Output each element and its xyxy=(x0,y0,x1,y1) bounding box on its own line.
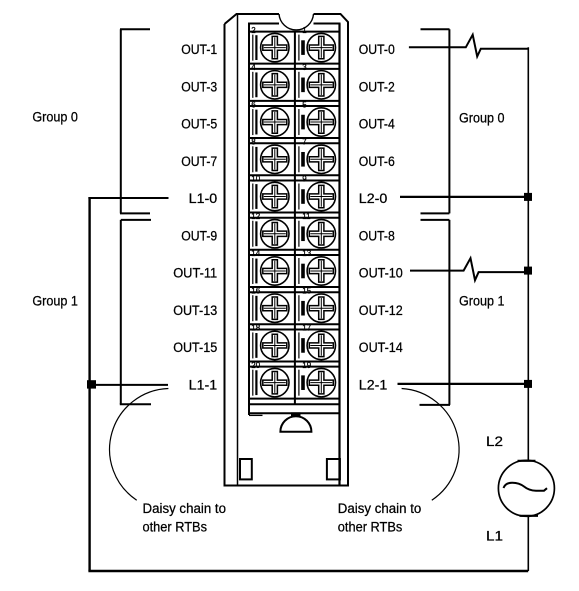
svg-text:OUT-5: OUT-5 xyxy=(181,117,217,132)
RTB terminal strip housing xyxy=(248,24,341,486)
wire right rail (L2) xyxy=(527,47,529,460)
svg-text:Group 1: Group 1 xyxy=(32,294,78,309)
svg-text:OUT-7: OUT-7 xyxy=(181,154,217,169)
svg-text:10: 10 xyxy=(251,175,260,184)
svg-text:other RTBs: other RTBs xyxy=(338,520,403,535)
svg-text:Group 0: Group 0 xyxy=(459,111,505,126)
svg-text:L1-0: L1-0 xyxy=(189,191,218,206)
svg-text:OUT-11: OUT-11 xyxy=(173,266,217,281)
terminal row 2 (terminals 4 / 3) xyxy=(248,69,341,101)
svg-text:OUT-3: OUT-3 xyxy=(181,79,217,94)
terminal row 4 (terminals 8 / 7) xyxy=(248,143,341,175)
terminal row 10 (terminals 20 / 19) xyxy=(248,367,341,399)
right mounting foot xyxy=(327,459,340,479)
wire bottom return (L1) xyxy=(88,570,528,573)
svg-text:L2-1: L2-1 xyxy=(359,377,388,392)
keying dome at RTB bottom xyxy=(280,412,311,431)
junction node at L2-1 xyxy=(524,380,532,388)
svg-text:2: 2 xyxy=(251,26,256,35)
svg-text:12: 12 xyxy=(251,212,260,221)
svg-text:6: 6 xyxy=(251,100,256,109)
note: Daisy chain to other RTBs (left) xyxy=(143,501,227,535)
terminal row 8 (terminals 16 / 15) xyxy=(248,292,341,324)
junction node at L2-0 xyxy=(524,193,532,201)
svg-text:8: 8 xyxy=(251,137,256,146)
svg-text:L2: L2 xyxy=(486,434,503,449)
svg-text:L1: L1 xyxy=(486,529,503,544)
Group 0 bracket (left) xyxy=(120,29,150,213)
svg-text:OUT-12: OUT-12 xyxy=(359,303,403,318)
wire L2-1 to right rail xyxy=(398,383,529,385)
terminal row 1 (terminals 2 / 1) xyxy=(248,32,341,64)
svg-text:16: 16 xyxy=(251,286,260,295)
daisy-chain arc (right) xyxy=(402,389,459,501)
svg-text:OUT-0: OUT-0 xyxy=(359,42,395,57)
svg-text:3: 3 xyxy=(302,63,307,72)
svg-text:1: 1 xyxy=(302,26,307,35)
svg-text:OUT-9: OUT-9 xyxy=(181,228,217,243)
svg-text:11: 11 xyxy=(302,212,311,221)
svg-text:OUT-15: OUT-15 xyxy=(173,340,217,355)
Group 1 bracket (left) xyxy=(120,220,151,404)
svg-text:14: 14 xyxy=(251,249,260,258)
svg-text:Daisy chain to: Daisy chain to xyxy=(143,501,227,516)
svg-text:OUT-8: OUT-8 xyxy=(359,228,395,243)
terminal row 7 (terminals 14 / 13) xyxy=(248,255,341,287)
svg-text:L1-1: L1-1 xyxy=(189,377,218,392)
RTB module case outline xyxy=(225,14,349,486)
svg-text:other RTBs: other RTBs xyxy=(143,520,208,535)
daisy-chain arc (left) xyxy=(110,389,169,501)
svg-text:Group 0: Group 0 xyxy=(32,110,78,125)
Group 0 bracket (right) xyxy=(421,29,450,213)
svg-text:18: 18 xyxy=(251,324,260,333)
svg-text:19: 19 xyxy=(302,361,311,370)
svg-text:13: 13 xyxy=(302,249,311,258)
terminal row 3 (terminals 6 / 5) xyxy=(248,106,341,138)
svg-text:L2-0: L2-0 xyxy=(359,191,388,206)
svg-text:7: 7 xyxy=(302,137,307,146)
svg-text:OUT-4: OUT-4 xyxy=(359,117,396,132)
note: Daisy chain to other RTBs (right) xyxy=(338,501,422,535)
left mounting foot xyxy=(240,459,252,479)
svg-text:OUT-13: OUT-13 xyxy=(173,303,217,318)
junction node at OUT-10 xyxy=(524,267,532,275)
svg-text:OUT-6: OUT-6 xyxy=(359,154,395,169)
svg-text:15: 15 xyxy=(302,286,311,295)
wire L2-0 to right rail xyxy=(400,196,528,198)
svg-text:17: 17 xyxy=(302,324,311,333)
svg-text:20: 20 xyxy=(251,361,260,370)
svg-text:9: 9 xyxy=(302,175,307,184)
AC power source V1 xyxy=(498,460,554,516)
terminal row 9 (terminals 18 / 17) xyxy=(248,329,341,361)
svg-text:OUT-1: OUT-1 xyxy=(181,42,217,57)
svg-text:Group 1: Group 1 xyxy=(459,294,505,309)
svg-text:Daisy chain to: Daisy chain to xyxy=(338,501,422,516)
wire OUT-0 with loose-wire break symbol xyxy=(409,35,528,57)
wire L1-1 stub xyxy=(90,384,168,386)
svg-text:OUT-14: OUT-14 xyxy=(359,340,404,355)
junction node at L1-1 xyxy=(87,380,96,388)
terminal row 6 (terminals 12 / 11) xyxy=(248,218,341,250)
wire L1-0 to left rail xyxy=(88,197,168,199)
wire from AC source to bottom return xyxy=(527,516,529,571)
svg-text:5: 5 xyxy=(302,100,307,109)
svg-text:4: 4 xyxy=(251,63,256,72)
Group 1 bracket (right) xyxy=(420,220,451,405)
wire OUT-10 with loose-wire break symbol xyxy=(410,258,528,280)
svg-text:OUT-10: OUT-10 xyxy=(359,266,403,281)
wire left rail (L1) xyxy=(88,197,90,571)
svg-text:OUT-2: OUT-2 xyxy=(359,79,395,94)
terminal row 5 (terminals 10 / 9) xyxy=(248,181,341,213)
